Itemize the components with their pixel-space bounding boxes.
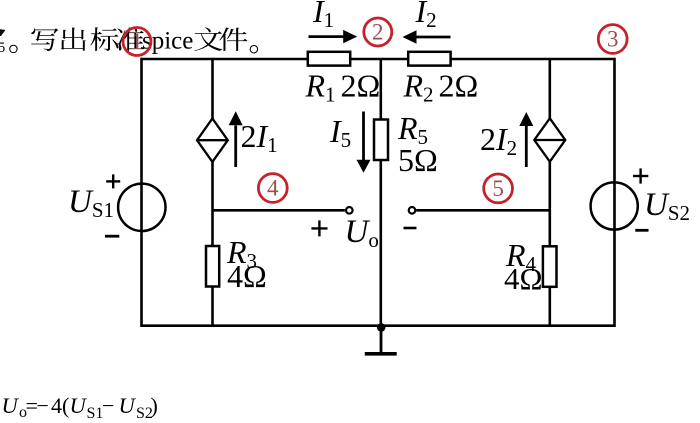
svg-text:R22Ω: R22Ω bbox=[403, 68, 479, 107]
label Uo bbox=[345, 214, 379, 252]
label 4ohm R4 bbox=[504, 261, 543, 296]
label R2 2ohm bbox=[403, 68, 479, 107]
wire top (node 2 rail) bbox=[142, 58, 615, 61]
svg-text:4Ω: 4Ω bbox=[227, 258, 267, 294]
US1 plus bbox=[106, 174, 120, 188]
heading fragment subscript 5 bbox=[0, 29, 5, 56]
svg-text:2I2: 2I2 bbox=[480, 121, 517, 160]
heading cjk zhun bbox=[117, 27, 144, 51]
node circle 1 bbox=[123, 28, 151, 56]
formula Uo = -4(US1 - US2) bbox=[2, 393, 158, 422]
heading cjk jian bbox=[219, 27, 247, 51]
dependent source U1 (2I1 diamond) bbox=[197, 119, 228, 162]
wire right branch bbox=[613, 58, 616, 327]
node circle 3 bbox=[598, 25, 627, 54]
label R1 2ohm bbox=[305, 68, 381, 107]
svg-text:4: 4 bbox=[267, 176, 279, 201]
ground bbox=[365, 326, 397, 354]
terminal node 4 (Uo +) bbox=[346, 207, 353, 214]
US1 minus bbox=[105, 235, 119, 238]
label 4ohm R3 bbox=[227, 258, 267, 294]
resistor R2 bbox=[408, 52, 450, 66]
label R3 bbox=[226, 234, 257, 273]
dependent source U2 (2I2 diamond) bbox=[534, 118, 565, 161]
resistor R5 bbox=[374, 120, 388, 161]
label I1 bbox=[312, 0, 334, 32]
wire right-inner branch (2I2 / R4) bbox=[548, 59, 551, 326]
arrow I2 bbox=[403, 30, 451, 43]
wire left branch bbox=[140, 58, 143, 327]
Uo minus bbox=[404, 227, 417, 230]
wire bottom (ground rail) bbox=[142, 324, 615, 327]
svg-text:2I1: 2I1 bbox=[241, 118, 278, 157]
US2 plus bbox=[633, 168, 648, 183]
wire node 4 horizontal bbox=[213, 209, 345, 212]
svg-text:1: 1 bbox=[131, 29, 143, 54]
svg-text:I1: I1 bbox=[312, 0, 334, 32]
label US1 bbox=[68, 184, 114, 222]
heading cjk chu bbox=[61, 28, 86, 51]
svg-text:5: 5 bbox=[0, 40, 5, 56]
heading cjk biao bbox=[90, 27, 118, 51]
terminal node 5 (Uo -) bbox=[409, 207, 416, 214]
label 2I1 bbox=[241, 118, 278, 157]
node circle 5 bbox=[484, 174, 513, 203]
heading cjk xie bbox=[31, 28, 58, 51]
svg-text:5: 5 bbox=[492, 176, 504, 201]
arrow I1 bbox=[309, 30, 358, 43]
heading cjk wen bbox=[194, 27, 222, 51]
label US2 bbox=[644, 187, 690, 225]
label R5 bbox=[397, 110, 428, 149]
wire middle branch (R5) bbox=[379, 59, 382, 326]
voltage source US2 bbox=[591, 182, 638, 229]
wire node 5 horizontal bbox=[416, 209, 550, 212]
Uo plus bbox=[311, 220, 327, 236]
svg-text:R12Ω: R12Ω bbox=[305, 68, 381, 107]
svg-text:US2: US2 bbox=[644, 187, 690, 225]
svg-text:Uo: Uo bbox=[345, 214, 379, 252]
svg-text:2: 2 bbox=[372, 20, 384, 45]
svg-text:Uo=−4(US1−US2): Uo=−4(US1−US2) bbox=[2, 393, 158, 422]
svg-text:US1: US1 bbox=[68, 184, 114, 222]
wire left-inner branch (2I1 / R3) bbox=[211, 59, 214, 326]
label 2I2 bbox=[480, 121, 517, 160]
resistor R4 bbox=[543, 246, 557, 286]
svg-text:4Ω: 4Ω bbox=[504, 261, 543, 296]
heading cjk period 2 bbox=[250, 45, 258, 53]
svg-text:I2: I2 bbox=[415, 0, 437, 32]
junction dot bbox=[377, 323, 386, 332]
label R4 bbox=[505, 237, 537, 276]
resistor R3 bbox=[206, 246, 219, 287]
US2 minus bbox=[635, 229, 648, 232]
arrow 2I1 bbox=[229, 111, 243, 167]
svg-text:5Ω: 5Ω bbox=[398, 142, 438, 178]
node circle 4 bbox=[258, 174, 287, 203]
svg-text:I5: I5 bbox=[329, 113, 351, 152]
label I5 bbox=[329, 113, 351, 152]
label I2 bbox=[415, 0, 437, 32]
heading cjk period 1 bbox=[9, 45, 17, 53]
node circle 2 bbox=[364, 18, 392, 46]
label 5ohm bbox=[398, 142, 438, 178]
resistor R1 bbox=[308, 52, 350, 66]
arrow 2I2 bbox=[519, 112, 533, 167]
heading latin spice bbox=[142, 27, 193, 54]
arrow I5 bbox=[357, 112, 371, 173]
voltage source US1 bbox=[118, 184, 165, 231]
svg-text:3: 3 bbox=[607, 27, 619, 52]
